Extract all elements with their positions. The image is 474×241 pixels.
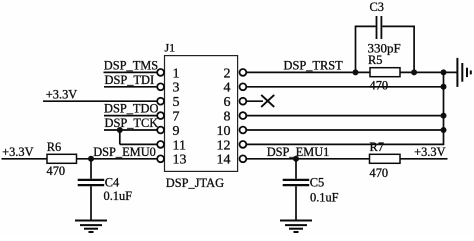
wire net DSP_TDI to pin 3	[104, 86, 158, 88]
pin 9 circle	[157, 127, 164, 134]
svg-text:R7: R7	[370, 140, 384, 154]
resistor R6 body	[47, 154, 77, 163]
junction dot bus top	[441, 69, 447, 75]
svg-text:14: 14	[217, 153, 231, 168]
wire pin 6 stub	[246, 100, 263, 102]
svg-text:8: 8	[224, 110, 231, 125]
pin 8 circle	[240, 112, 247, 119]
svg-text:7: 7	[173, 110, 180, 125]
svg-text:R5: R5	[368, 53, 382, 67]
wire pin 14 to R7 (net DSP_EMU1)	[246, 158, 370, 160]
svg-text:J1: J1	[165, 41, 176, 55]
capacitor C5 plates	[283, 179, 310, 181]
svg-text:C4: C4	[105, 175, 119, 189]
svg-text:+3.3V: +3.3V	[46, 87, 77, 101]
pin 12 circle	[240, 141, 247, 148]
wire TCK branch vertical	[119, 130, 121, 144]
svg-text:13: 13	[173, 153, 187, 168]
svg-text:12: 12	[217, 138, 231, 153]
svg-text:DSP_TRST: DSP_TRST	[284, 58, 344, 72]
wire net DSP_TCK to pin 9	[104, 129, 158, 131]
svg-text:DSP_JTAG: DSP_JTAG	[166, 176, 224, 190]
wire ground bus vertical	[443, 72, 445, 145]
wire net DSP_TMS to pin 1	[104, 71, 158, 73]
wire pin 8 to bus	[246, 115, 444, 117]
pin 7 circle	[157, 112, 164, 119]
pin 3 circle	[157, 83, 164, 90]
svg-text:DSP_TCK: DSP_TCK	[105, 116, 159, 130]
svg-text:5: 5	[173, 95, 180, 110]
capacitor C4 top lead	[90, 159, 92, 179]
svg-text:C3: C3	[370, 0, 384, 14]
junction dot bus row10	[441, 127, 447, 133]
pin 13 circle	[157, 155, 164, 162]
junction dot DSP_EMU1 / C5	[293, 156, 299, 162]
junction dot C3 left	[353, 69, 359, 75]
connector J1 body	[165, 56, 238, 172]
capacitor C5 bottom lead	[295, 186, 297, 220]
resistor R5 body	[370, 68, 400, 77]
svg-text:470: 470	[47, 164, 66, 178]
resistor R7 body	[370, 154, 401, 163]
svg-text:DSP_TDI: DSP_TDI	[105, 73, 155, 87]
svg-text:470: 470	[370, 79, 389, 93]
junction dot DSP_EMU0 / C4	[88, 156, 94, 162]
pin 6 circle	[240, 98, 247, 105]
pin 5 circle	[157, 98, 164, 105]
capacitor C3 right lead	[382, 26, 414, 72]
svg-text:9: 9	[173, 124, 180, 139]
wire net DSP_TDO to pin 7	[104, 115, 158, 117]
no-connect X on pin 6	[261, 95, 274, 107]
ground symbol below C5	[280, 221, 312, 233]
ground symbol below C4	[75, 221, 107, 233]
capacitor C4 plates	[78, 179, 105, 181]
svg-text:+3.3V: +3.3V	[414, 145, 445, 159]
svg-text:C5: C5	[310, 175, 324, 189]
svg-text:DSP_TMS: DSP_TMS	[104, 58, 159, 72]
pin 4 circle	[240, 83, 247, 90]
svg-text:2: 2	[224, 66, 231, 81]
wire R7 to +3.3V	[400, 158, 448, 160]
svg-text:DSP_TDO: DSP_TDO	[104, 102, 158, 116]
svg-text:4: 4	[224, 81, 231, 96]
junction dot bus row4	[441, 84, 447, 90]
svg-text:11: 11	[173, 138, 186, 153]
pin 1 circle	[157, 69, 164, 76]
junction dot bus row8	[441, 113, 447, 119]
capacitor C5 top lead	[295, 159, 297, 179]
capacitor C3 left lead	[356, 26, 376, 72]
junction dot on DSP_TCK	[117, 127, 123, 133]
pin 11 circle	[157, 141, 164, 148]
pin 2 circle	[240, 69, 247, 76]
svg-text:3: 3	[173, 81, 180, 96]
svg-text:R6: R6	[47, 140, 61, 154]
svg-text:+3.3V: +3.3V	[2, 145, 33, 159]
capacitor C3 plates	[376, 16, 378, 39]
wire net +3.3V to pin 5	[43, 100, 158, 102]
wire pin 2 to R5 (net DSP_TRST)	[246, 71, 370, 73]
wire pin 4 to bus	[246, 86, 444, 88]
svg-text:1: 1	[173, 66, 180, 81]
svg-text:6: 6	[224, 95, 231, 110]
svg-text:DSP_EMU0: DSP_EMU0	[93, 145, 156, 159]
svg-text:10: 10	[217, 124, 231, 139]
pin 14 circle	[240, 155, 247, 162]
capacitor C4 bottom lead	[90, 186, 92, 220]
svg-text:470: 470	[370, 166, 389, 180]
svg-text:0.1uF: 0.1uF	[310, 190, 339, 204]
pin 10 circle	[240, 127, 247, 134]
svg-text:0.1uF: 0.1uF	[104, 189, 133, 203]
earth ground right (rotated)	[457, 58, 470, 87]
wire R5 to ground	[400, 71, 457, 73]
wire TCK branch to pin 11	[120, 143, 158, 145]
junction dot C3 right	[411, 69, 417, 75]
wire R6 to pin 13 (net DSP_EMU0)	[77, 158, 158, 160]
wire +3.3V to R6	[2, 158, 48, 160]
wire pin 12 to bus	[246, 143, 444, 145]
wire pin 10 to bus	[246, 129, 444, 131]
